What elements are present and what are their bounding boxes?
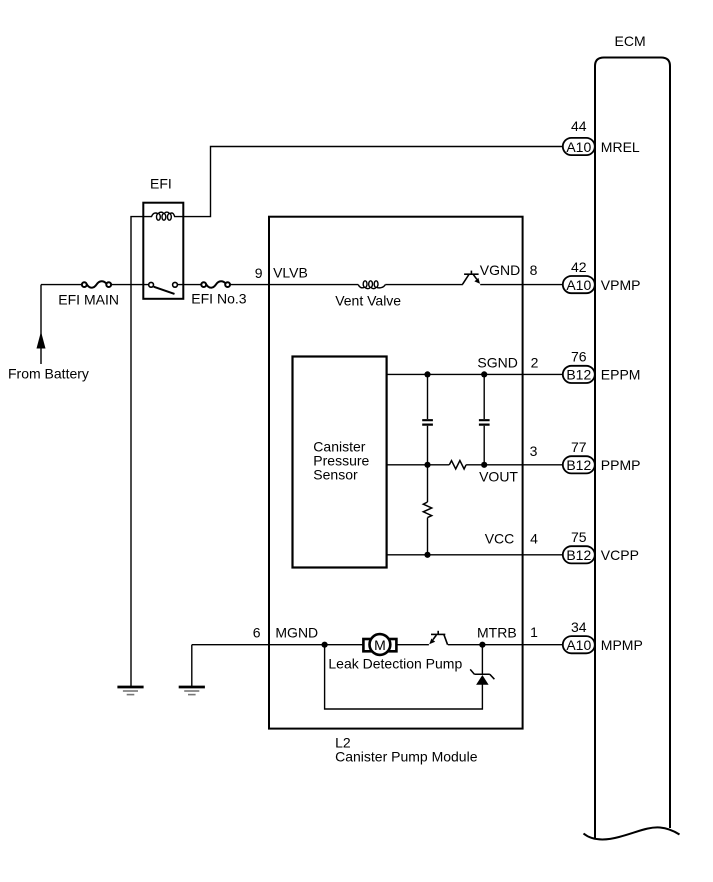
svg-text:A10: A10 <box>566 139 591 155</box>
svg-text:VCPP: VCPP <box>601 547 639 563</box>
svg-text:44: 44 <box>571 118 587 134</box>
svg-text:MREL: MREL <box>601 139 640 155</box>
svg-text:Sensor: Sensor <box>313 467 358 483</box>
node VCC-R <box>424 552 430 558</box>
svg-text:MTRB: MTRB <box>477 625 517 641</box>
wire pump bypass loop <box>325 645 483 709</box>
svg-text:A10: A10 <box>566 277 591 293</box>
svg-text:1: 1 <box>530 624 538 640</box>
node MTRB loop <box>479 642 485 648</box>
pin A10 MPMP <box>530 619 643 653</box>
resistor vertical <box>423 502 431 518</box>
fuse EFI MAIN <box>82 281 111 287</box>
svg-text:42: 42 <box>571 259 587 275</box>
svg-text:PPMP: PPMP <box>601 457 641 473</box>
svg-text:8: 8 <box>530 262 538 278</box>
wire VOUT row <box>387 464 563 466</box>
wire MGND row <box>192 644 563 646</box>
resistor horizontal (VOUT) <box>449 461 466 469</box>
node VOUT-C2 <box>481 462 487 468</box>
node SGND-C1 <box>424 371 430 377</box>
svg-text:B12: B12 <box>566 547 591 563</box>
svg-text:34: 34 <box>571 619 587 635</box>
svg-text:VLVB: VLVB <box>273 265 308 281</box>
ground (relay coil) <box>117 687 143 695</box>
svg-text:EFI No.3: EFI No.3 <box>191 291 246 307</box>
canister pump module box <box>269 217 523 729</box>
svg-text:77: 77 <box>571 439 587 455</box>
svg-text:2: 2 <box>531 355 539 371</box>
wire relay coil left to ground <box>131 217 144 687</box>
svg-text:VCC: VCC <box>485 531 515 547</box>
wire relay coil right up to MREL <box>183 147 563 217</box>
svg-text:EFI: EFI <box>150 175 172 191</box>
arrow from battery <box>37 332 46 349</box>
svg-text:A10: A10 <box>566 637 591 653</box>
svg-text:EPPM: EPPM <box>601 367 641 383</box>
ground (MGND) <box>179 687 205 695</box>
svg-text:EFI MAIN: EFI MAIN <box>58 292 119 308</box>
ECM bottom wavy break line <box>584 827 680 839</box>
pin B12 VCPP <box>530 529 639 563</box>
node SGND-C2 <box>481 371 487 377</box>
capacitor C2 <box>479 420 490 424</box>
svg-text:Vent Valve: Vent Valve <box>335 293 401 309</box>
canister pressure sensor box <box>293 357 387 568</box>
wire SGND row <box>387 373 563 375</box>
svg-text:ECM: ECM <box>615 33 646 49</box>
pin A10 VPMP <box>530 259 641 293</box>
relay coil <box>144 212 183 220</box>
svg-text:Leak Detection Pump: Leak Detection Pump <box>328 656 462 672</box>
svg-text:75: 75 <box>571 529 587 545</box>
wire capacitor branch 2 <box>483 374 485 464</box>
node VOUT-C1 <box>424 462 430 468</box>
ECM box <box>584 58 680 840</box>
zener diode <box>476 675 489 685</box>
svg-text:4: 4 <box>530 531 538 547</box>
pin B12 EPPM <box>531 349 641 383</box>
svg-text:B12: B12 <box>566 457 591 473</box>
svg-text:3: 3 <box>530 443 538 459</box>
svg-text:VGND: VGND <box>480 262 520 278</box>
svg-text:VOUT: VOUT <box>479 469 518 485</box>
svg-text:MPMP: MPMP <box>601 637 643 653</box>
svg-text:SGND: SGND <box>477 355 517 371</box>
transistor VGND <box>463 271 479 285</box>
svg-text:VPMP: VPMP <box>601 277 641 293</box>
svg-text:M: M <box>374 637 386 653</box>
motor M <box>363 639 396 651</box>
svg-text:B12: B12 <box>566 367 591 383</box>
wire from vent valve to transistor and to VPMP <box>385 284 563 286</box>
capacitor C1 <box>422 420 433 424</box>
svg-text:Canister Pump Module: Canister Pump Module <box>335 749 478 765</box>
node MGND loop <box>322 642 328 648</box>
wire main B+ row y=284.6 left of relay <box>41 284 358 286</box>
svg-text:76: 76 <box>571 349 587 365</box>
svg-text:From Battery: From Battery <box>8 366 89 382</box>
fuse EFI No.3 <box>201 281 230 287</box>
pin B12 PPMP <box>530 439 641 473</box>
wire capacitor branch 1 <box>427 374 429 464</box>
wire MGND to ground <box>191 645 193 687</box>
wire vertical resistor branch <box>427 465 429 555</box>
svg-text:9: 9 <box>255 265 263 281</box>
pin A10 MREL <box>563 118 640 155</box>
wire VCC row <box>387 554 563 556</box>
vent valve coil <box>358 281 385 289</box>
relay box EFI <box>143 203 183 299</box>
svg-text:6: 6 <box>253 625 261 641</box>
svg-text:MGND: MGND <box>275 625 318 641</box>
relay switch <box>149 282 178 294</box>
wire zener to MTRB node <box>481 645 483 675</box>
wire battery drop <box>40 285 42 364</box>
transistor MTRB <box>431 631 448 645</box>
